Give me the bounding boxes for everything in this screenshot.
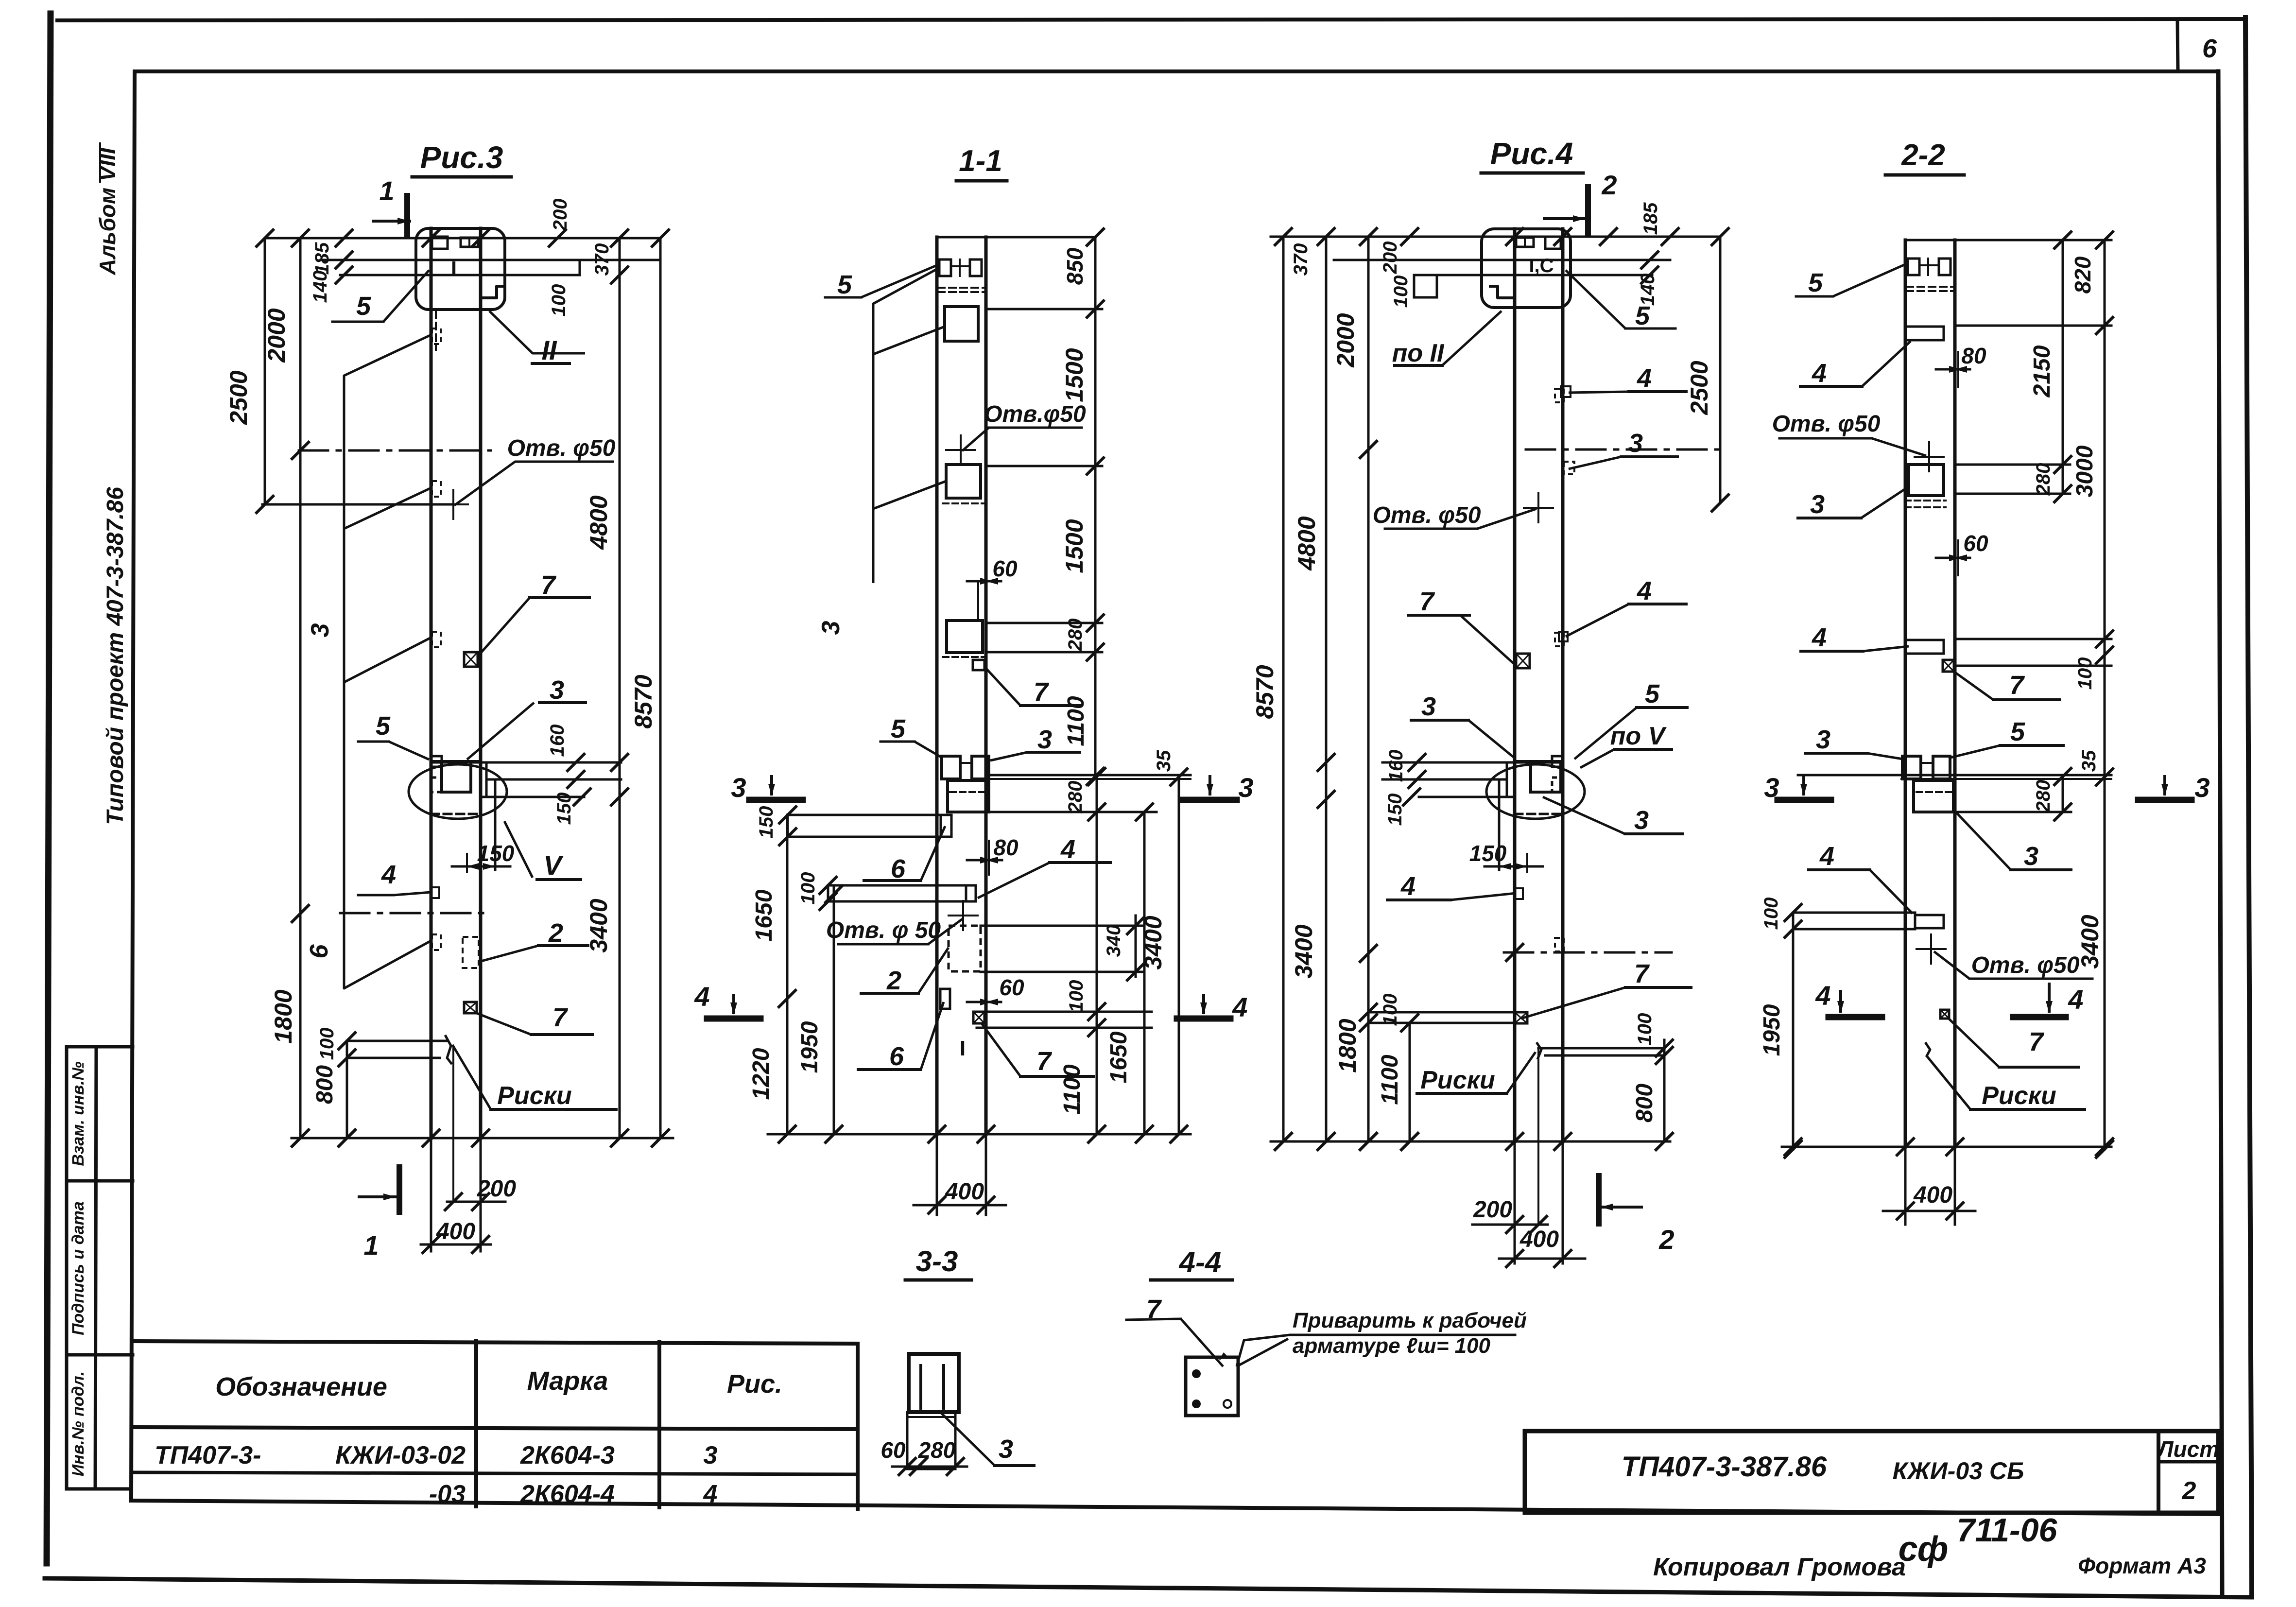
fig3 top cap detail boundary xyxy=(1482,229,1571,308)
svg-text:280: 280 xyxy=(1065,781,1086,814)
svg-text:850: 850 xyxy=(1062,247,1088,285)
svg-text:1650: 1650 xyxy=(751,889,777,941)
svg-text:185: 185 xyxy=(311,242,333,275)
note leader xyxy=(1237,1335,1290,1366)
fig4 joint level lines with 35 xyxy=(1798,774,2111,777)
fig1 corbel lines right xyxy=(431,761,621,764)
svg-text:7: 7 xyxy=(1036,1047,1053,1076)
svg-text:400: 400 xyxy=(436,1219,475,1244)
svg-text:I,C: I,C xyxy=(1529,255,1554,276)
svg-text:60: 60 xyxy=(999,975,1024,1000)
svg-text:ТП407-3-: ТП407-3- xyxy=(155,1441,261,1469)
svg-text:5: 5 xyxy=(1808,268,1823,297)
fig3 detail ellipse xyxy=(1486,764,1585,819)
fig4 plate poz7 lower xyxy=(1940,1010,1949,1019)
fig3 dim 400 bottom xyxy=(1499,1258,1585,1260)
fig4 right dim 3400 xyxy=(2104,666,2106,1149)
svg-text:7: 7 xyxy=(2009,671,2025,700)
fig2 plate box 1 xyxy=(945,307,978,341)
svg-text:200: 200 xyxy=(1473,1197,1512,1223)
fig2 dim line x2257 280/100/1100 xyxy=(1096,777,1098,1134)
svg-text:711-06: 711-06 xyxy=(1957,1512,2058,1549)
fig2 dim extension lines right xyxy=(986,308,1102,311)
fig3 middle joint detail xyxy=(1515,760,1563,763)
fig3 left dim 2000 xyxy=(1367,237,1370,1141)
svg-text:арматуре ℓш= 100: арматуре ℓш= 100 xyxy=(1293,1334,1491,1358)
fig2 plate box 2 xyxy=(946,465,981,498)
svg-text:2К604-4: 2К604-4 xyxy=(520,1480,615,1508)
fig2 left corbel bar 150 xyxy=(788,814,942,816)
fig1 column shaft xyxy=(430,228,433,1138)
fig2 dashed pocket poz2 xyxy=(949,926,981,971)
svg-text:3400: 3400 xyxy=(1139,916,1167,969)
svg-text:1500: 1500 xyxy=(1061,519,1088,573)
fig3 lower centerline dash-dot xyxy=(1504,951,1672,954)
svg-text:7: 7 xyxy=(1634,959,1650,988)
svg-text:8570: 8570 xyxy=(630,674,657,728)
svg-text:3000: 3000 xyxy=(2072,445,2098,497)
fig4 joint recess box xyxy=(1914,780,1953,812)
svg-text:7: 7 xyxy=(541,570,557,600)
svg-text:1800: 1800 xyxy=(1334,1019,1361,1072)
svg-text:Инв.№ подл.: Инв.№ подл. xyxy=(69,1371,87,1477)
inner frame right line xyxy=(2218,71,2222,1597)
fig1 leader collector line poz3 xyxy=(344,335,430,988)
svg-text:Подпись и дата: Подпись и дата xyxy=(69,1201,87,1335)
svg-text:3: 3 xyxy=(731,772,746,803)
svg-text:35: 35 xyxy=(1153,750,1174,772)
svg-text:5: 5 xyxy=(837,270,852,299)
svg-text:3: 3 xyxy=(817,621,845,635)
svg-text:5: 5 xyxy=(1635,301,1650,330)
section 4-4 plate xyxy=(1186,1357,1238,1416)
fig3 dim lines 100 left xyxy=(1368,1011,1515,1014)
svg-text:800: 800 xyxy=(312,1065,338,1104)
svg-text:370: 370 xyxy=(591,243,613,276)
svg-text:60: 60 xyxy=(992,556,1018,581)
svg-text:100: 100 xyxy=(316,1028,338,1060)
svg-text:150: 150 xyxy=(553,793,575,825)
fig3 column shaft xyxy=(1513,229,1517,1141)
svg-text:3: 3 xyxy=(999,1434,1013,1464)
svg-text:4-4: 4-4 xyxy=(1179,1246,1222,1279)
fig4 section mark 4 left xyxy=(1829,1014,1882,1020)
svg-text:Риски: Риски xyxy=(1982,1082,2056,1110)
svg-text:6: 6 xyxy=(2202,34,2217,63)
svg-text:3: 3 xyxy=(2194,772,2210,803)
svg-text:7: 7 xyxy=(2029,1027,2045,1056)
fig4 plate bar 4 top xyxy=(1905,326,1944,328)
fig2 left bar 2 with 100 xyxy=(828,884,975,887)
fig4 bottom extensions and 400 xyxy=(1904,1147,1907,1225)
svg-text:6: 6 xyxy=(305,944,333,958)
fig3 left dim 4800/3400 xyxy=(1325,237,1328,1141)
fig1 top dimension line xyxy=(265,237,660,240)
fig3 embedded dashes on column xyxy=(1555,389,1564,402)
svg-text:280: 280 xyxy=(2033,463,2054,496)
fig1 right dim line 4800/3400 xyxy=(619,238,621,1138)
svg-text:280: 280 xyxy=(2033,780,2054,813)
fig4 riska mark xyxy=(1925,1042,1930,1057)
fig1 step detail at cap bottom right xyxy=(481,279,505,298)
svg-text:Марка: Марка xyxy=(527,1366,608,1396)
fig2 plate on left edge xyxy=(940,989,950,1009)
svg-text:сф: сф xyxy=(1899,1530,1949,1569)
fig2 joint level lines with 35 xyxy=(989,774,1191,777)
svg-text:по V: по V xyxy=(1610,722,1667,750)
svg-text:1800: 1800 xyxy=(270,989,297,1043)
svg-text:4: 4 xyxy=(1637,576,1652,605)
svg-text:3: 3 xyxy=(1764,772,1779,803)
svg-text:100: 100 xyxy=(1761,898,1782,930)
svg-text:Рис.4: Рис.4 xyxy=(1490,136,1573,171)
fig4 plate poz7 upper xyxy=(1943,660,1954,672)
svg-text:4: 4 xyxy=(694,981,709,1012)
svg-text:2: 2 xyxy=(548,918,563,948)
fig3 right dim 2500 xyxy=(1719,237,1722,503)
fig3 hole Отв Ф50 xyxy=(1537,493,1539,522)
svg-text:Приварить к рабочей: Приварить к рабочей xyxy=(1293,1309,1527,1332)
svg-text:3: 3 xyxy=(1810,490,1825,519)
fig3 corbel lines left xyxy=(1382,761,1563,764)
fig2 dim 340 short line xyxy=(1135,916,1137,977)
section 4-4 leader from note xyxy=(1237,1339,1288,1366)
svg-text:4: 4 xyxy=(1400,872,1416,901)
fig4 hole Отв Ф50 xyxy=(1928,442,1930,471)
top band page-number cell divider xyxy=(2177,20,2178,71)
fig2 left dim line 1950 xyxy=(833,885,835,1134)
fig3 riska lines xyxy=(1538,1047,1664,1050)
svg-text:60: 60 xyxy=(1963,531,1988,556)
fig2 middle joint plates xyxy=(942,756,960,779)
svg-text:7: 7 xyxy=(1419,587,1435,616)
svg-text:V: V xyxy=(543,850,564,881)
fig1 top cap detail boundary (rounded) xyxy=(416,228,505,310)
svg-text:400: 400 xyxy=(1913,1182,1952,1208)
svg-text:200: 200 xyxy=(1380,242,1401,275)
svg-text:4: 4 xyxy=(1232,992,1247,1022)
svg-text:1220: 1220 xyxy=(748,1048,774,1100)
fig1 bottom dimension line xyxy=(292,1137,673,1140)
fig2 plate box 3 xyxy=(947,621,983,653)
fig2 section mark 4 left xyxy=(707,1016,760,1022)
title block frame xyxy=(1525,1431,2218,1513)
svg-text:3: 3 xyxy=(2024,842,2038,871)
svg-text:8570: 8570 xyxy=(1251,665,1278,719)
fig4 dim ext line 820 level xyxy=(1955,325,2111,327)
svg-text:3: 3 xyxy=(1816,725,1830,754)
fig4 top embedded plates xyxy=(1908,259,1919,275)
svg-text:1500: 1500 xyxy=(1061,348,1088,402)
fig3 bottom extensions xyxy=(1514,1141,1516,1263)
fig4 plate bar 4 mid xyxy=(1905,639,1944,641)
svg-text:340: 340 xyxy=(1103,925,1124,957)
fig4 bottom dimension line xyxy=(1782,1146,2111,1148)
svg-text:Взам. инв.№: Взам. инв.№ xyxy=(69,1061,87,1166)
svg-text:5: 5 xyxy=(376,711,391,741)
svg-text:1100: 1100 xyxy=(1063,696,1089,746)
fig4 section mark 3 left xyxy=(1778,797,1831,803)
inner frame top line xyxy=(135,69,2218,73)
svg-text:Формат А3: Формат А3 xyxy=(2078,1553,2206,1578)
fig3 dim 1100 xyxy=(1409,1023,1411,1141)
fig3 dim 200 bottom xyxy=(1472,1224,1548,1226)
sidebar cells box xyxy=(65,1047,69,1489)
svg-text:3: 3 xyxy=(1421,692,1436,721)
svg-text:2: 2 xyxy=(886,966,901,995)
fig4 right dim 2150 xyxy=(2062,240,2064,494)
fig1 centerline dash-dot xyxy=(299,449,491,452)
fig3 bottom dimension line xyxy=(1271,1140,1670,1143)
svg-text:400: 400 xyxy=(1519,1227,1559,1252)
fig2 section mark 3 left xyxy=(749,797,803,803)
svg-text:140: 140 xyxy=(310,271,331,303)
svg-text:100: 100 xyxy=(2074,657,2096,690)
svg-text:6: 6 xyxy=(889,1042,904,1071)
fig3 centerline dash-dot xyxy=(1526,449,1723,451)
section 3-3 lower part xyxy=(907,1412,955,1469)
svg-text:Отв.φ50: Отв.φ50 xyxy=(984,401,1086,427)
sheet outer left edge line xyxy=(47,14,51,1563)
svg-text:150: 150 xyxy=(756,806,777,839)
fig2 right lower dim lines xyxy=(989,811,1157,813)
svg-text:Копировал Громова: Копировал Громова xyxy=(1653,1553,1906,1581)
svg-text:3-3: 3-3 xyxy=(916,1245,958,1278)
fig3 dim 150 horizontal xyxy=(1526,854,1528,872)
fig3 right dim 100/800 xyxy=(1663,1040,1666,1141)
svg-text:820: 820 xyxy=(2070,256,2095,294)
svg-text:2500: 2500 xyxy=(225,370,252,425)
fig4 right dim 820/3000/100 xyxy=(2104,240,2106,666)
svg-text:3: 3 xyxy=(1238,772,1253,803)
svg-text:2500: 2500 xyxy=(1686,361,1713,415)
section 3-3 dim line xyxy=(892,1466,967,1468)
svg-text:80: 80 xyxy=(1961,343,1986,368)
svg-text:1950: 1950 xyxy=(1759,1004,1785,1056)
inner frame left line xyxy=(131,71,135,1501)
fig2 top embedded plates xyxy=(939,259,951,276)
svg-text:Рис.3: Рис.3 xyxy=(420,140,503,175)
fig3 top dimension line xyxy=(1271,236,1720,238)
sheet outer bottom edge line xyxy=(45,1578,2252,1597)
svg-text:100: 100 xyxy=(1634,1013,1656,1046)
svg-text:100: 100 xyxy=(548,284,570,317)
svg-text:1950: 1950 xyxy=(797,1021,823,1073)
fig4 section mark 4 right xyxy=(2013,1014,2066,1020)
svg-text:800: 800 xyxy=(1632,1084,1657,1123)
svg-text:80: 80 xyxy=(993,835,1019,860)
fig2 hole 2 Отв Ф50 xyxy=(962,901,964,930)
svg-text:35: 35 xyxy=(2078,750,2100,772)
fig4 plate box 3 xyxy=(1909,465,1944,496)
svg-text:Риски: Риски xyxy=(1420,1066,1495,1094)
svg-text:60: 60 xyxy=(880,1437,906,1463)
fig2 hole Отв Ф50 xyxy=(960,435,962,465)
fig2 bottom dimension line xyxy=(768,1133,1191,1136)
svg-text:3400: 3400 xyxy=(1290,924,1317,978)
svg-text:2150: 2150 xyxy=(2029,345,2055,397)
svg-text:II: II xyxy=(541,335,557,365)
svg-text:Альбом VIII: Альбом VIII xyxy=(95,147,120,276)
svg-text:4800: 4800 xyxy=(585,495,612,550)
fig4 middle joint plates xyxy=(1902,756,1921,779)
svg-text:I: I xyxy=(960,1037,966,1060)
svg-text:150: 150 xyxy=(477,841,515,866)
fig2 bottom extension and 400 xyxy=(936,1134,938,1215)
svg-text:3: 3 xyxy=(1037,725,1052,754)
inner frame bottom line xyxy=(131,1501,2218,1514)
svg-text:по II: по II xyxy=(1392,339,1445,367)
fig1 detail ellipse V xyxy=(409,764,507,819)
svg-text:КЖИ-03-02: КЖИ-03-02 xyxy=(335,1441,466,1469)
fig4 left bar with 100 xyxy=(1793,912,1915,914)
svg-text:4: 4 xyxy=(381,860,396,889)
svg-text:150: 150 xyxy=(1384,794,1406,826)
svg-text:100: 100 xyxy=(1390,276,1412,308)
svg-text:Отв. φ50: Отв. φ50 xyxy=(507,435,616,461)
svg-text:2000: 2000 xyxy=(263,308,290,363)
svg-text:160: 160 xyxy=(547,725,568,757)
fig3 embedded plate at cap xyxy=(1545,237,1561,249)
fig3 plate poz7 lower xyxy=(1515,1012,1527,1023)
svg-text:Отв. φ50: Отв. φ50 xyxy=(1772,411,1881,437)
svg-text:Обозначение: Обозначение xyxy=(215,1372,387,1401)
fig2 dim line x2355 1650 xyxy=(1143,812,1146,1134)
svg-text:4: 4 xyxy=(1812,623,1827,652)
fig1 left dim line 2000/1800 xyxy=(299,238,302,1138)
fig1 embedded dashes on column xyxy=(432,328,441,344)
fig1 riska lines xyxy=(347,1040,447,1042)
svg-text:370: 370 xyxy=(1290,243,1312,276)
fig1 hole level line xyxy=(262,503,453,506)
fig1 plate poz7 lower xyxy=(464,1002,477,1013)
svg-text:5: 5 xyxy=(1645,679,1660,708)
fig1 bottom section mark 1 xyxy=(397,1167,402,1212)
fig4 top line xyxy=(1905,239,2111,242)
fig4 left dim 1950 xyxy=(1792,929,1795,1149)
svg-text:-03: -03 xyxy=(429,1480,466,1508)
table frame xyxy=(133,1341,858,1344)
svg-text:4: 4 xyxy=(1812,359,1827,388)
fig1 embedded plate at cap xyxy=(432,237,448,249)
svg-text:1100: 1100 xyxy=(1059,1064,1085,1115)
svg-text:4: 4 xyxy=(1060,835,1075,864)
fig3 step detail at cap bottom left xyxy=(1489,279,1515,298)
fig1 plate poz7 upper xyxy=(464,652,478,667)
fig2 left dim line 1650/1220 xyxy=(786,815,789,1134)
fig1 pocket dashed poz2 xyxy=(463,937,479,968)
fig2 plate poz7 small xyxy=(973,660,984,670)
svg-text:200: 200 xyxy=(477,1176,516,1202)
svg-text:3: 3 xyxy=(1634,806,1649,835)
fig2 dim line x2426 3400 xyxy=(1178,777,1180,1134)
fig1 bottom extension lines xyxy=(430,1138,432,1251)
svg-text:400: 400 xyxy=(945,1179,984,1205)
fig1 dim 200 bottom xyxy=(447,1201,505,1203)
svg-text:1650: 1650 xyxy=(1106,1031,1132,1083)
fig2 section mark 3 right xyxy=(1183,797,1237,803)
svg-text:2-2: 2-2 xyxy=(1901,138,1945,172)
svg-text:5: 5 xyxy=(2010,717,2025,746)
fig1 lower centerline dash-dot xyxy=(340,912,491,915)
svg-text:185: 185 xyxy=(1640,202,1661,235)
svg-text:100: 100 xyxy=(1066,980,1087,1013)
fig1 hole Отв Ф50 xyxy=(452,490,454,519)
svg-text:3400: 3400 xyxy=(2076,915,2104,968)
svg-text:Отв. φ50: Отв. φ50 xyxy=(1373,502,1481,528)
fig4 hole 2 Отв Ф50 xyxy=(1930,934,1932,964)
svg-text:2: 2 xyxy=(1601,170,1617,200)
svg-text:150: 150 xyxy=(1469,841,1507,866)
svg-text:Лист: Лист xyxy=(2157,1436,2219,1462)
fig4 column shaft xyxy=(1904,240,1907,1147)
fig1 left dim line 2500 xyxy=(264,238,266,504)
svg-text:1-1: 1-1 xyxy=(959,144,1002,178)
svg-text:2К604-3: 2К604-3 xyxy=(520,1441,615,1469)
svg-text:Риски: Риски xyxy=(497,1082,572,1110)
fig2 joint recess box xyxy=(948,780,989,812)
fig3 bottom section mark 2 xyxy=(1596,1176,1602,1224)
fig1 middle joint detail xyxy=(431,760,481,763)
section 3-3 embedded channel xyxy=(909,1354,959,1412)
svg-text:5: 5 xyxy=(356,292,371,321)
fig1 dim 150 horizontal xyxy=(466,854,468,872)
fig2 plate poz7 lower xyxy=(973,1012,984,1023)
fig1 beam lines through cap xyxy=(321,259,660,261)
svg-text:100: 100 xyxy=(1380,994,1401,1026)
svg-text:Типовой проект 407-3-387.86: Типовой проект 407-3-387.86 xyxy=(103,487,128,825)
svg-text:1: 1 xyxy=(379,175,394,206)
svg-text:3: 3 xyxy=(306,623,334,637)
svg-text:4: 4 xyxy=(2068,984,2083,1015)
svg-text:ТП407-3-387.86: ТП407-3-387.86 xyxy=(1622,1451,1827,1483)
svg-text:3: 3 xyxy=(704,1441,718,1469)
svg-text:2: 2 xyxy=(1658,1224,1674,1255)
svg-text:7: 7 xyxy=(1034,677,1050,707)
fig1 right dim line 8570 xyxy=(659,238,662,1138)
svg-text:3: 3 xyxy=(550,675,564,705)
svg-text:4800: 4800 xyxy=(1293,516,1320,570)
svg-text:7: 7 xyxy=(552,1003,569,1032)
fig4 dim 280 mid xyxy=(2062,775,2064,812)
svg-text:5: 5 xyxy=(891,714,906,743)
svg-text:4: 4 xyxy=(1637,363,1652,393)
fig2 top line xyxy=(937,236,1095,239)
svg-text:100: 100 xyxy=(797,872,819,905)
svg-text:4: 4 xyxy=(1815,980,1830,1011)
svg-text:Отв. φ 50: Отв. φ 50 xyxy=(826,917,941,943)
svg-text:1100: 1100 xyxy=(1377,1054,1403,1105)
svg-text:4: 4 xyxy=(1819,842,1834,871)
fig1 left dim line 100/800 xyxy=(346,1041,348,1138)
svg-text:Отв. φ50: Отв. φ50 xyxy=(1971,952,2080,978)
fig3 top section mark 2 xyxy=(1585,187,1591,234)
svg-text:280: 280 xyxy=(918,1437,956,1463)
fig2 collector leader poz3 xyxy=(873,268,939,583)
svg-text:4: 4 xyxy=(703,1480,718,1508)
sheet outer right edge line xyxy=(2245,17,2252,1597)
fig4 section mark 3 right xyxy=(2138,797,2192,803)
fig3 left dim 8570 xyxy=(1282,237,1285,1141)
svg-text:2: 2 xyxy=(2182,1477,2196,1505)
svg-text:1: 1 xyxy=(363,1230,379,1261)
fig3 plate poz7 upper xyxy=(1516,654,1530,668)
svg-text:Рис.: Рис. xyxy=(727,1369,782,1399)
fig1 dim 400 bottom xyxy=(421,1244,491,1246)
fig2 section mark 4 right xyxy=(1177,1016,1230,1022)
svg-text:2000: 2000 xyxy=(1332,313,1359,367)
fig1 top section mark 1 xyxy=(404,196,410,234)
